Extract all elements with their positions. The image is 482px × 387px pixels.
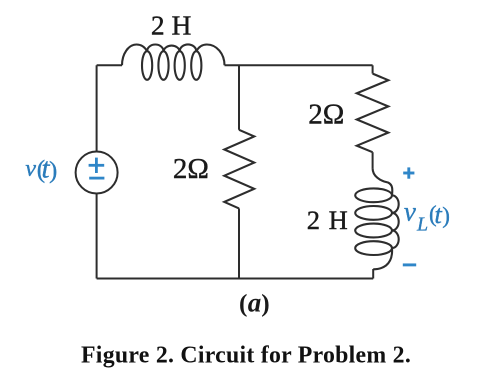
svg-text:v: v <box>25 155 36 182</box>
svg-text:v: v <box>404 197 416 227</box>
svg-text:Figure 2. Circuit for Problem: Figure 2. Circuit for Problem 2. <box>81 343 411 369</box>
svg-text:2Ω: 2Ω <box>173 153 209 185</box>
svg-text:): ) <box>49 157 57 184</box>
svg-text:a: a <box>248 288 262 318</box>
svg-text:): ) <box>261 289 269 317</box>
svg-text:): ) <box>442 202 450 228</box>
svg-text:2 H: 2 H <box>151 9 192 40</box>
svg-text:L: L <box>416 214 428 236</box>
svg-text:t: t <box>434 199 442 229</box>
svg-text:(: ( <box>239 289 247 317</box>
svg-text:2Ω: 2Ω <box>308 99 344 131</box>
svg-text:2 H: 2 H <box>307 205 349 235</box>
